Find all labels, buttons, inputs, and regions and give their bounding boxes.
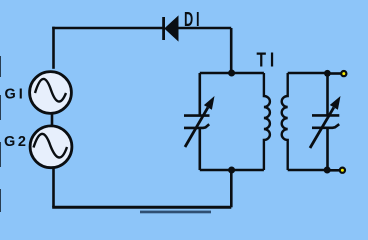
wire right vertical (top rail to tank top) [230,28,233,73]
transformer T1 primary winding [264,73,270,170]
junction node dot (secondary bottom-right corner) [324,167,331,174]
label D1 [184,8,202,31]
variable capacitor C1 arrow [185,96,215,147]
diode D1 triangle [165,17,178,41]
scan artifact: echo line under bottom rail [140,211,211,214]
wire primary tank left edge upper (to capacitor C1 top plate) [199,73,202,115]
wire bottom-left vertical (G2 bottom to bottom rail) [52,166,55,207]
wire secondary tank top edge [288,72,328,75]
svg-text:DI: DI [184,8,202,31]
variable capacitor C1 bottom plate [184,124,209,128]
wire secondary tank right edge upper (to capacitor C2 top plate) [326,73,329,115]
wire top rail right segment (diode anode to right corner) [178,27,231,30]
variable capacitor C1 top plate [184,114,210,117]
wire primary tank top edge [200,72,264,75]
junction node dot (secondary top-right corner) [324,70,331,77]
wire output stub top (to terminal) [328,72,341,75]
wire primary tank bottom edge [200,169,264,172]
scan artifact: left edge dark dashes [0,56,2,212]
wire primary tank left edge lower (from capacitor C1 bottom plate) [199,128,202,170]
label T1 [257,49,279,71]
variable capacitor C2 arrow [310,96,341,148]
diode D1 cathode bar [162,17,165,40]
generator G1 [30,72,72,114]
variable capacitor C2 bottom plate [312,124,339,128]
wire secondary tank bottom edge [288,169,328,172]
svg-text:G2: G2 [4,134,29,150]
wire bottom vertical (bottom rail to tank bottom) [230,170,233,207]
generator G2 [30,126,72,168]
variable capacitor C2 top plate [312,114,339,117]
wire secondary tank right edge lower (from capacitor C2 bottom plate) [326,128,329,171]
transformer T1 secondary winding [282,73,288,170]
junction node dot (tank top, x=231.5) [228,70,235,77]
wire stub between G1 and G2 [51,113,54,127]
junction node dot (tank bottom, x=231.5) [228,167,235,174]
wire bottom rail [52,206,231,209]
wire top rail left segment (corner to diode cathode) [52,27,162,30]
output terminal bottom (yellow) [340,168,345,173]
wire top-left vertical (G1 top to top rail) [52,27,55,69]
svg-text:GI: GI [5,86,26,102]
wire output stub bottom (to terminal) [328,169,340,172]
svg-text:TI: TI [257,49,279,71]
output terminal top (yellow) [341,71,346,76]
